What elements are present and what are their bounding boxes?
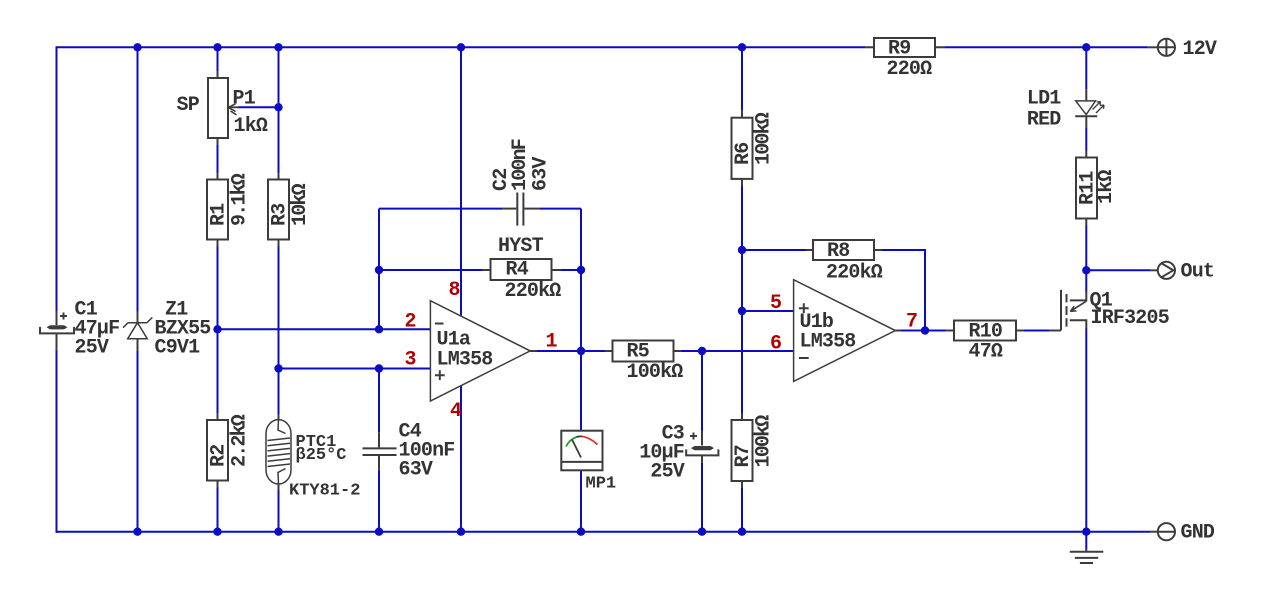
junction bottom rail Z1 — [133, 528, 141, 536]
Q1 labels — [1090, 290, 1169, 331]
R10 labels — [969, 321, 1003, 364]
junction HYST left — [375, 266, 383, 274]
svg-text:KTY81-2: KTY81-2 — [289, 482, 360, 501]
resistor R11 1k — [1076, 151, 1097, 226]
svg-text:220kΩ: 220kΩ — [826, 262, 883, 285]
svg-text:1kΩ: 1kΩ — [1095, 170, 1118, 204]
junction bottom rail R2 — [213, 528, 221, 536]
resistor R6 100k — [732, 111, 753, 186]
junction pin5 line — [738, 307, 746, 315]
svg-text:1kΩ: 1kΩ — [234, 115, 268, 138]
U1a labels — [437, 329, 493, 372]
svg-text:3: 3 — [405, 349, 416, 372]
svg-text:LD1: LD1 — [1027, 88, 1061, 111]
junction output node MP1 — [577, 347, 585, 355]
svg-text:6: 6 — [770, 333, 781, 356]
junction top rail P1 — [213, 43, 221, 51]
R3 labels — [269, 183, 313, 226]
wire C4 top — [378, 369, 380, 433]
wire feedback vertical C2-R4-pin2 — [378, 209, 380, 330]
wire Out node to terminal — [1086, 269, 1150, 271]
capacitor C4 100nF — [363, 432, 397, 470]
wire Z1 top — [137, 47, 139, 311]
svg-text:2.2kΩ: 2.2kΩ — [229, 414, 252, 467]
junction pin7 R8 — [921, 326, 929, 334]
wire top 12V rail right of R9 — [945, 46, 1148, 48]
svg-text:P1: P1 — [233, 88, 256, 111]
U1b labels — [800, 311, 856, 354]
R7 labels — [732, 415, 776, 468]
svg-text:MP1: MP1 — [586, 475, 617, 494]
wire rail to ground symbol — [1085, 532, 1087, 549]
capacitor C2 100nF 63V — [502, 193, 539, 226]
MOSFET Q1 IRF3205 — [1049, 290, 1086, 331]
wire left rail below C1 — [56, 350, 58, 533]
resistor R1 9.1k — [207, 173, 228, 247]
P1 labels — [177, 88, 268, 139]
C1 labels — [75, 299, 120, 360]
svg-text:R8: R8 — [827, 240, 849, 263]
R4 labels — [498, 235, 561, 303]
svg-text:RED: RED — [1027, 109, 1061, 132]
wire P1 to R1 — [217, 145, 219, 173]
wire U1a pin2 input — [218, 328, 431, 330]
wire U1a out to R5 — [536, 350, 605, 352]
svg-text:100kΩ: 100kΩ — [753, 112, 776, 165]
resistor R5 100k — [605, 341, 682, 362]
junction bottom rail R7 — [738, 528, 746, 536]
wire R8 right corner down to pin7 node — [882, 250, 925, 331]
svg-text:HYST: HYST — [498, 235, 544, 258]
wire top 12V rail left of R9 — [57, 46, 866, 48]
svg-text:2: 2 — [405, 311, 416, 334]
resistor R4 220k HYST — [482, 259, 560, 280]
wire C2 left — [379, 208, 502, 210]
LED LD1 RED — [1075, 89, 1104, 127]
junction pin2 R1 — [213, 325, 221, 333]
wire Z1 bottom — [137, 351, 139, 532]
junction bottom rail PTC1 — [274, 528, 282, 536]
svg-text:220Ω: 220Ω — [887, 58, 933, 81]
LD1 labels — [1027, 88, 1061, 132]
wire R11 to Out node — [1085, 226, 1087, 271]
Z1 labels — [155, 299, 211, 360]
svg-text:1: 1 — [546, 331, 558, 354]
R6 labels — [732, 112, 776, 165]
wire C3 top — [701, 351, 703, 431]
wire Out node to Q1 drain — [1085, 270, 1087, 291]
svg-text:R4: R4 — [506, 259, 529, 282]
svg-text:LM358: LM358 — [800, 331, 856, 354]
wire U1a pin3 input — [279, 368, 431, 370]
junction top rail R6 — [738, 43, 746, 51]
svg-text:GND: GND — [1181, 522, 1215, 545]
R8 labels — [826, 240, 883, 285]
junction R5 C3 — [698, 347, 706, 355]
PTC1 labels — [289, 433, 360, 501]
U1b pin numbers — [770, 292, 917, 356]
svg-text:5: 5 — [770, 292, 781, 315]
wire C4 bottom — [378, 470, 380, 532]
junction HYST right — [577, 266, 585, 274]
C2 labels — [490, 139, 553, 191]
wire R2 to rail — [217, 488, 219, 532]
wire HYST left of R4 — [379, 269, 482, 271]
svg-text:8: 8 — [449, 279, 460, 302]
R1 labels — [208, 173, 252, 226]
resistor R7 100k — [732, 413, 753, 488]
svg-text:63V: 63V — [399, 459, 433, 482]
wire R6 to R7 vertical — [741, 186, 743, 413]
wire R1 to R2 — [217, 247, 219, 414]
wire R10 to Q1 gate — [1024, 330, 1049, 332]
svg-text:4: 4 — [450, 400, 462, 423]
svg-text:LM358: LM358 — [437, 349, 493, 372]
capacitor C1 47uF 25V electrolytic — [40, 312, 74, 350]
svg-text:7: 7 — [906, 311, 917, 334]
junction Out node — [1082, 266, 1090, 274]
wire Q1 source to rail — [1085, 328, 1087, 531]
junction top rail Z1 — [133, 43, 141, 51]
resistor R2 2.2k — [207, 413, 228, 488]
wire output node vertical C2 loop down to MP1 — [580, 209, 582, 431]
svg-text:β25°C: β25°C — [296, 446, 347, 465]
wire rail to R3 — [278, 47, 280, 172]
svg-text:10kΩ: 10kΩ — [289, 183, 312, 226]
junction bottom rail pin4 — [457, 528, 465, 536]
junction top rail R3 — [274, 43, 282, 51]
svg-text:25V: 25V — [75, 337, 109, 360]
junction top rail LD1 — [1082, 43, 1090, 51]
svg-text:63V: 63V — [530, 157, 553, 191]
resistor R8 220k — [806, 240, 882, 260]
PTC1 sensor KTY81-2 — [266, 414, 291, 489]
ground symbol — [1070, 549, 1104, 563]
svg-text:12V: 12V — [1183, 38, 1217, 61]
svg-text:R2: R2 — [208, 445, 231, 467]
junction wiper R3 — [274, 103, 282, 111]
wire rail to R6 — [741, 47, 743, 110]
resistor R10 47 — [946, 321, 1024, 341]
junction pin3 R3 — [274, 364, 282, 372]
wire left rail above C1 — [56, 46, 58, 311]
wire C3 bottom — [701, 462, 703, 531]
junction pin2 feedback — [375, 325, 383, 333]
U1a pin numbers — [405, 279, 558, 423]
svg-text:220kΩ: 220kΩ — [505, 280, 562, 303]
svg-text:25V: 25V — [650, 461, 684, 484]
junction bottom rail GND — [1082, 528, 1090, 536]
junction bottom rail C4 — [375, 528, 383, 536]
wire R7 to rail — [741, 488, 743, 532]
terminal GND — [1150, 523, 1175, 540]
junction R8 line — [738, 246, 746, 254]
junction top rail pin8 — [457, 43, 465, 51]
wire R3 to PTC1 — [278, 247, 280, 415]
wire bottom GND rail — [56, 531, 1151, 533]
R9 labels — [887, 38, 933, 82]
zener diode Z1 BZX55 C9V1 — [123, 312, 152, 352]
svg-text:100kΩ: 100kΩ — [753, 415, 776, 468]
resistor R9 220 — [865, 38, 945, 57]
wire HYST right of R4 — [560, 269, 581, 271]
svg-text:47Ω: 47Ω — [969, 341, 1003, 364]
svg-text:SP: SP — [177, 94, 200, 117]
wire PTC1 to rail — [278, 489, 280, 531]
svg-text:100kΩ: 100kΩ — [627, 361, 684, 384]
R2 labels — [208, 414, 252, 467]
potentiometer P1 1k SP — [208, 71, 239, 145]
svg-text:R1: R1 — [208, 203, 231, 226]
junction pin3 C4 — [375, 364, 383, 372]
wire rail to P1 — [217, 47, 219, 71]
terminal Out — [1150, 262, 1175, 279]
wire U1b out to R10 — [901, 330, 946, 332]
C4 labels — [399, 421, 455, 482]
svg-text:C9V1: C9V1 — [155, 337, 201, 360]
svg-text:IRF3205: IRF3205 — [1091, 307, 1169, 330]
wire R8 left — [742, 249, 806, 251]
wire P1 wiper to R3 column — [238, 106, 279, 108]
junction bottom rail MP1 — [577, 528, 585, 536]
wire rail to LD1 — [1085, 47, 1087, 89]
svg-text:9.1kΩ: 9.1kΩ — [229, 173, 252, 226]
wire R5 to U1b pin6 — [682, 350, 794, 352]
wire U1a pin8 supply — [460, 47, 462, 316]
junction bottom rail C3 — [698, 528, 706, 536]
C3 labels — [639, 423, 685, 484]
wire C2 right — [539, 208, 581, 210]
resistor R3 10k — [268, 173, 289, 247]
R11 labels — [1077, 170, 1119, 205]
op-amp U1b LM358 — [794, 280, 901, 382]
capacitor C3 10uF 25V electrolytic — [686, 431, 718, 462]
wire LD1 to R11 — [1085, 127, 1087, 150]
wire U1a pin4 supply — [460, 386, 462, 532]
wire U1b pin5 — [742, 310, 794, 312]
svg-text:Out: Out — [1181, 261, 1215, 284]
op-amp U1a LM358 — [430, 301, 537, 401]
meter MP1 — [561, 431, 602, 471]
wire MP1 to rail — [580, 470, 582, 531]
R5 labels — [627, 341, 684, 385]
terminal 12V — [1148, 39, 1175, 56]
